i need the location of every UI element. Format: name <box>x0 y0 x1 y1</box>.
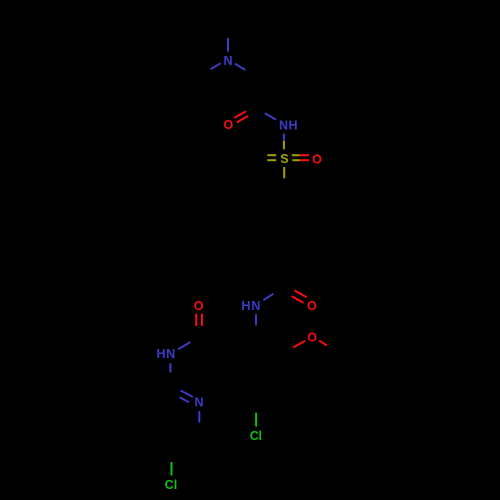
wire amide2 C=O2 double line a <box>294 290 306 297</box>
wire methoxy O4-CH3 stub <box>319 340 327 345</box>
wire N1-CH2 down-right stub <box>235 64 246 70</box>
wire N2-S blue half <box>283 134 285 142</box>
wire N4-pyridine down stub <box>169 363 171 372</box>
svg-text:O: O <box>312 152 322 166</box>
wire S double-left bottom stub <box>267 159 276 161</box>
svg-text:O: O <box>307 299 317 313</box>
svg-text:N: N <box>194 396 203 410</box>
svg-text:O: O <box>307 331 317 345</box>
wire C-N2 amide stub <box>265 113 276 119</box>
wire C=O1 double bond line b <box>237 116 248 122</box>
wire N3-ring down stub <box>255 314 257 325</box>
wire amide3 C=O3 double line left <box>195 314 197 326</box>
svg-text:N: N <box>251 299 260 313</box>
svg-text:C: C <box>165 478 174 492</box>
svg-text:l: l <box>258 429 262 443</box>
wire ring-Cl1 stub <box>255 413 257 427</box>
svg-text:N: N <box>223 54 232 68</box>
wire C=O1 double bond line a <box>234 111 246 118</box>
wire amide2 N3-C stub <box>263 294 273 301</box>
svg-text:S: S <box>280 152 288 166</box>
wire N1-CH3 down-left stub <box>211 63 221 69</box>
wire pyridine N5=C main line stub <box>181 391 194 398</box>
wire S-ring down stub <box>283 167 285 178</box>
wire S=O right bottom olive half <box>292 159 300 161</box>
svg-text:O: O <box>224 118 234 132</box>
wire pyridine C5-Cl2 stub <box>171 462 173 476</box>
wire N2-S olive half <box>283 141 285 149</box>
svg-text:O: O <box>194 299 204 313</box>
svg-text:N: N <box>166 347 175 361</box>
wire amide3 C=O3 double line right <box>201 314 203 326</box>
wire pyridine N5=C inner line stub <box>180 397 190 402</box>
wire S=O right top olive half <box>292 154 300 156</box>
svg-text:H: H <box>241 299 250 313</box>
wire N1-CH3 up stub <box>227 38 229 52</box>
svg-text:l: l <box>174 478 178 492</box>
svg-text:H: H <box>157 347 166 361</box>
svg-text:H: H <box>288 119 297 133</box>
wire S=O right bottom red half <box>300 159 309 161</box>
svg-text:N: N <box>279 119 288 133</box>
wire methoxy O4-ring stub <box>293 341 305 348</box>
wire amide2 C=O2 double line b <box>292 296 304 303</box>
wire S double-left top stub <box>267 154 276 156</box>
wire amide3 N4-C stub <box>178 342 190 349</box>
wire pyridine N5-C4 down stub <box>198 411 200 423</box>
wire S=O right top red half <box>300 154 309 156</box>
